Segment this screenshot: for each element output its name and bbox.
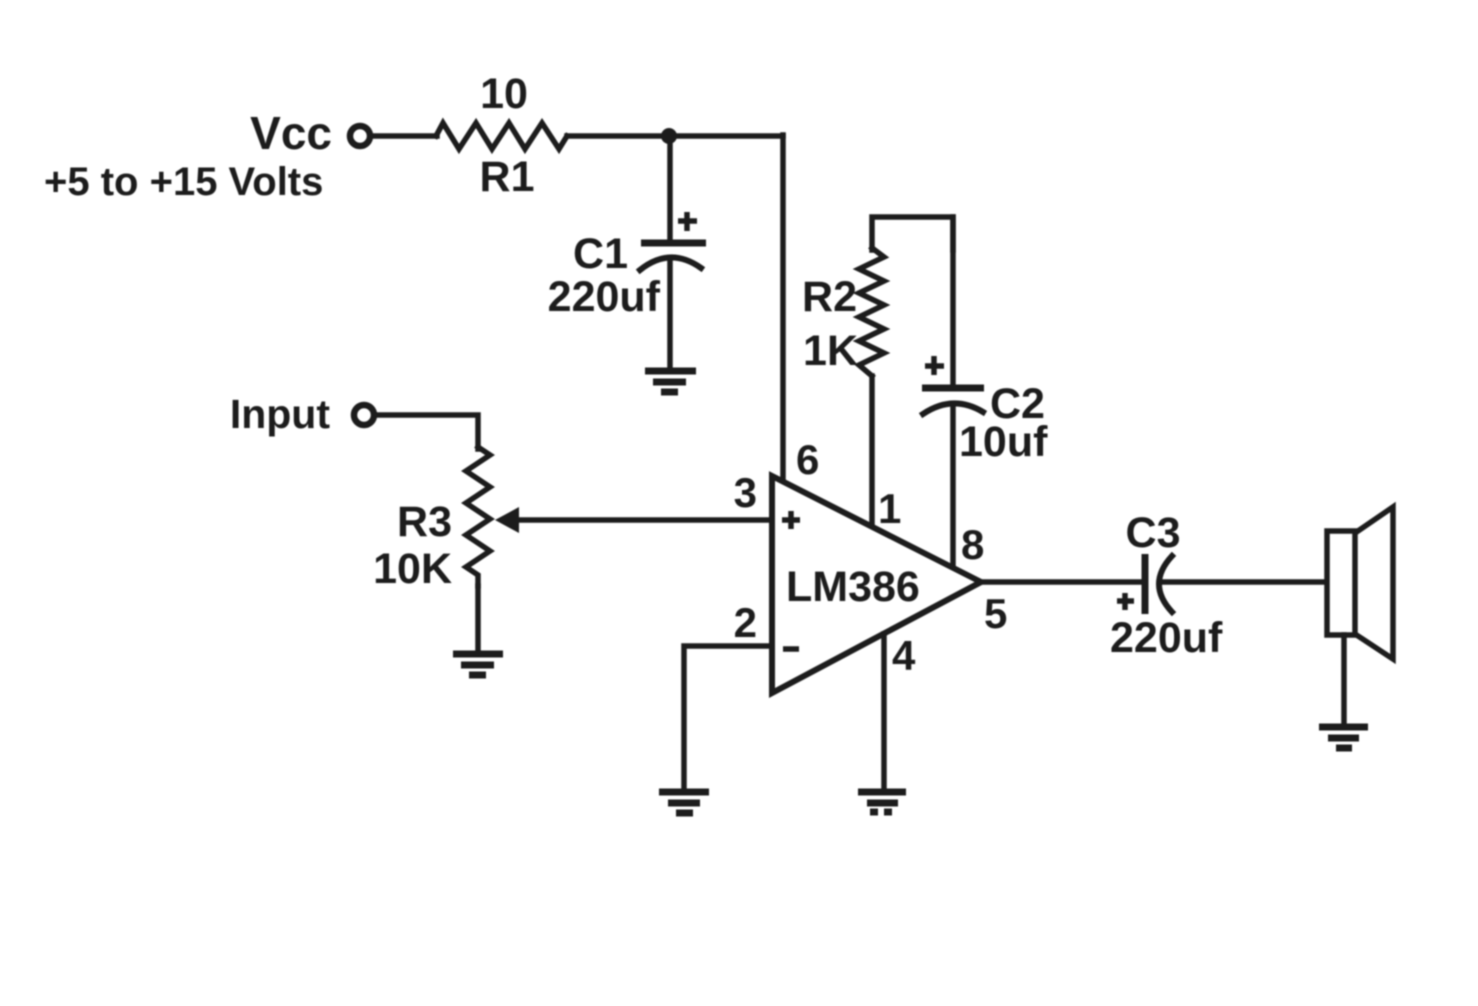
wire pin 4 [881, 634, 887, 790]
wire R3 to ground [475, 586, 481, 652]
svg-text:10: 10 [480, 70, 528, 118]
ground (R3) [453, 651, 503, 658]
resistor R2 [859, 248, 884, 376]
wire C2 to pin 8 [950, 407, 956, 568]
capacitor C1 [641, 240, 706, 247]
wire speaker to ground [1341, 635, 1347, 725]
svg-text:2: 2 [734, 599, 757, 646]
wire R2/C2 top bridge [872, 217, 953, 250]
node junction dot [661, 128, 677, 144]
svg-text:1: 1 [878, 485, 901, 532]
potentiometer R3 [466, 447, 490, 586]
capacitor C2 [922, 385, 984, 392]
wire bridge to C2 [950, 217, 956, 385]
wire R1 to corner [567, 133, 783, 139]
svg-text:10uf: 10uf [959, 418, 1048, 466]
wire junction down to C1 [667, 137, 673, 240]
capacitor C3 plus sign [1117, 598, 1134, 604]
wire pin 5 to C3 [978, 579, 1145, 585]
wire R2 to pin 1 [869, 376, 875, 527]
resistor R1 [436, 123, 567, 149]
wire Vcc to R1 [371, 133, 437, 139]
speaker LS1 [1355, 507, 1393, 659]
svg-text:Vcc: Vcc [250, 107, 332, 159]
svg-text:Input: Input [230, 391, 331, 437]
capacitor C1 plus sign [678, 218, 697, 224]
Input terminal [354, 405, 374, 425]
wire wiper to pin 3 [515, 517, 772, 523]
op-amp plus input mark [782, 517, 800, 523]
wire C1 to ground [667, 262, 673, 370]
capacitor C2 plus sign [925, 363, 944, 369]
wire pin 2 [684, 646, 772, 790]
svg-text:R2: R2 [802, 273, 857, 321]
wire Input to R3 [376, 415, 478, 449]
ground (C1) [645, 368, 696, 375]
R3 wiper arrow [495, 507, 519, 533]
svg-text:8: 8 [961, 521, 984, 568]
svg-text:220uf: 220uf [548, 273, 661, 321]
ground (speaker) [1319, 724, 1368, 731]
svg-text:5: 5 [984, 590, 1007, 637]
svg-text:4: 4 [892, 632, 916, 679]
svg-text:10K: 10K [373, 545, 452, 593]
svg-text:1K: 1K [803, 327, 858, 375]
svg-text:6: 6 [796, 436, 819, 483]
svg-text:C3: C3 [1126, 509, 1181, 557]
svg-text:3: 3 [734, 469, 757, 516]
wire corner down to pin 6 [780, 135, 786, 484]
ground (pin 4) [858, 789, 906, 796]
wire C3 to speaker [1164, 579, 1327, 585]
capacitor C3 [1142, 554, 1149, 614]
svg-text:C1: C1 [573, 230, 628, 278]
Vcc terminal [350, 126, 370, 146]
svg-text:R3: R3 [397, 498, 452, 546]
op-amp minus input mark [783, 646, 799, 652]
svg-text:LM386: LM386 [786, 563, 920, 611]
svg-text:R1: R1 [480, 153, 535, 201]
svg-text:220uf: 220uf [1110, 614, 1223, 662]
op-amp U1 LM386 [772, 476, 981, 693]
svg-text:+5 to +15 Volts: +5 to +15 Volts [44, 160, 323, 204]
ground (pin 2) [659, 789, 709, 796]
